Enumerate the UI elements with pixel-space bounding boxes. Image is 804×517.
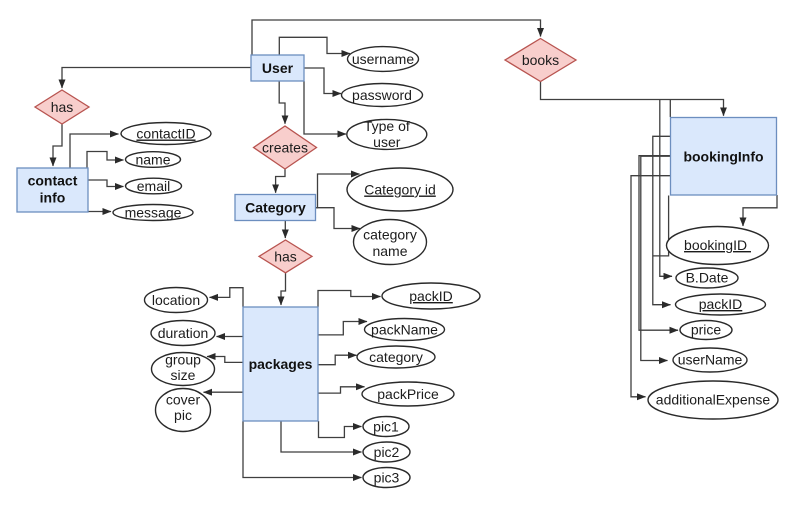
- svg-text:contactID: contactID: [136, 126, 195, 142]
- attribute group size: [152, 352, 215, 386]
- attribute B.Date: [676, 268, 738, 288]
- svg-text:has: has: [51, 99, 74, 115]
- wire User to creates: [279, 81, 285, 124]
- attribute packID: [382, 283, 480, 309]
- wire packages to cover pic: [204, 391, 244, 393]
- wire corner at bookingInfo top-left: [669, 100, 671, 118]
- wire User to has1: [62, 68, 251, 89]
- svg-text:group: group: [165, 352, 201, 368]
- entity Category: [235, 195, 316, 221]
- wire packages to group size: [207, 357, 243, 363]
- wire bookingInfo to price: [639, 156, 678, 331]
- svg-text:has: has: [274, 248, 297, 264]
- svg-text:Type of: Type of: [364, 118, 410, 134]
- attribute userName: [673, 348, 747, 372]
- svg-text:B.Date: B.Date: [686, 270, 729, 286]
- wire contact info to email: [88, 180, 124, 187]
- wire packages to pic3: [243, 421, 362, 478]
- wire bookingInfo to bookingID: [743, 195, 777, 226]
- svg-text:additionalExpense: additionalExpense: [656, 392, 771, 408]
- svg-text:pic2: pic2: [374, 444, 400, 460]
- attribute packID2: [676, 294, 766, 315]
- wire packages to category: [318, 355, 357, 365]
- svg-text:Category id: Category id: [364, 182, 436, 198]
- svg-text:Category: Category: [245, 200, 306, 216]
- svg-text:message: message: [125, 205, 182, 221]
- wire contact info to message: [88, 211, 111, 213]
- svg-text:password: password: [352, 87, 412, 103]
- wire User to password: [304, 68, 341, 94]
- wire packages to pic2: [281, 421, 362, 452]
- svg-text:packPrice: packPrice: [377, 386, 439, 402]
- attribute pic2: [363, 442, 410, 462]
- wire jog below bookingInfo: [653, 196, 669, 256]
- wire contact info to name: [87, 152, 124, 169]
- entity User: [251, 55, 304, 81]
- wire creates to Category: [276, 169, 285, 193]
- svg-text:price: price: [691, 322, 722, 338]
- attribute category name: [354, 220, 427, 265]
- wire User to username: [279, 37, 350, 55]
- svg-text:User: User: [262, 60, 294, 76]
- entity packages: [243, 307, 318, 421]
- attribute category: [357, 346, 435, 368]
- attribute name: [126, 152, 181, 168]
- svg-text:user: user: [373, 134, 401, 150]
- wire bookingInfo to userName: [641, 156, 670, 360]
- svg-text:packages: packages: [249, 356, 313, 372]
- svg-text:size: size: [171, 367, 196, 383]
- relationship books: [505, 39, 576, 82]
- svg-text:packID: packID: [699, 296, 743, 312]
- wire bookingInfo to packID2: [653, 136, 671, 304]
- attribute additionalExpense: [648, 381, 778, 419]
- svg-text:pic1: pic1: [373, 419, 399, 435]
- entity contact info: [17, 168, 88, 212]
- entity bookingInfo: [671, 118, 777, 196]
- wire packages to duration: [217, 336, 244, 338]
- wire packages to packPrice: [318, 387, 365, 393]
- svg-text:category: category: [369, 349, 423, 365]
- wire Category to category name: [316, 208, 361, 229]
- wire contact info to contactID: [70, 134, 119, 168]
- attribute packPrice: [362, 382, 454, 406]
- svg-text:cover: cover: [166, 392, 201, 408]
- attribute bookingID: [667, 227, 769, 265]
- svg-text:pic: pic: [174, 407, 192, 423]
- attribute pic3: [363, 468, 410, 488]
- attribute email: [126, 178, 182, 194]
- attribute pic1: [363, 417, 409, 437]
- wire User to Type of user: [304, 81, 346, 134]
- wire Category to has2: [284, 221, 286, 239]
- attribute packName: [365, 319, 445, 341]
- svg-text:userName: userName: [678, 352, 743, 368]
- attribute username: [348, 47, 419, 72]
- svg-text:duration: duration: [158, 325, 209, 341]
- svg-text:creates: creates: [262, 140, 308, 156]
- attribute message: [113, 205, 193, 221]
- wire books to bookingInfo: [541, 82, 724, 116]
- attribute location: [145, 288, 208, 313]
- wire has1 to contact info: [53, 124, 62, 166]
- svg-text:category: category: [363, 227, 417, 243]
- svg-text:packName: packName: [371, 322, 438, 338]
- svg-text:books: books: [522, 52, 559, 68]
- relationship has1: [35, 90, 89, 124]
- svg-text:location: location: [152, 292, 200, 308]
- attribute contactID: [121, 123, 211, 145]
- wire bookingInfo to B.Date: [660, 100, 672, 277]
- svg-text:packID: packID: [409, 288, 453, 304]
- wire packages to location: [210, 288, 244, 307]
- wire Category to Category id: [316, 174, 360, 208]
- wire bookingInfo to additionalExpense: [631, 176, 670, 397]
- attribute cover pic: [156, 389, 211, 432]
- attribute Category id: [347, 168, 453, 211]
- svg-text:username: username: [352, 51, 414, 67]
- svg-text:bookingID: bookingID: [684, 237, 751, 253]
- svg-text:pic3: pic3: [374, 470, 400, 486]
- relationship creates: [254, 126, 317, 169]
- svg-text:bookingInfo: bookingInfo: [683, 149, 763, 165]
- attribute Type of user: [347, 118, 427, 150]
- svg-text:contact: contact: [28, 173, 78, 189]
- svg-text:email: email: [137, 178, 170, 194]
- svg-text:info: info: [40, 190, 66, 206]
- attribute price: [680, 321, 732, 340]
- svg-text:name: name: [135, 152, 170, 168]
- svg-text:name: name: [372, 243, 407, 259]
- wire packages to packID: [318, 291, 381, 308]
- attribute duration: [151, 321, 215, 346]
- wire packages to packName: [318, 322, 367, 335]
- attribute password: [342, 84, 423, 107]
- wire has2 to packages: [281, 273, 286, 305]
- relationship has2: [259, 240, 312, 273]
- wire packages to pic1: [319, 421, 362, 438]
- wire User to books: [252, 20, 541, 55]
